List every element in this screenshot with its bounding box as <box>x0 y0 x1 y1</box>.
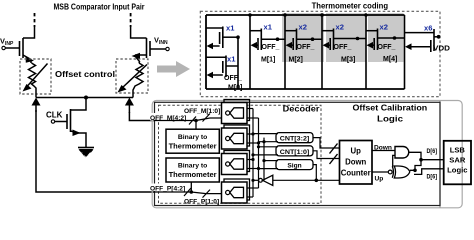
transistor T1b (x1 lower of cell 1) <box>206 55 242 92</box>
svg-text:x2: x2 <box>299 23 307 32</box>
node <box>251 132 254 135</box>
svg-text:Logic: Logic <box>447 166 467 175</box>
transistor T4 (x2, M[3]) <box>322 23 366 64</box>
svg-text:Binary to: Binary to <box>178 163 207 170</box>
wire: left drain dashed up <box>34 13 36 27</box>
wire rail cell5 <box>365 15 367 89</box>
arrow up under right resistor <box>128 101 130 113</box>
wire cell1 output column <box>237 37 239 89</box>
gate G1 (AND, down path) <box>395 147 409 159</box>
wire: M2 source to resistor <box>135 55 147 63</box>
node VINN terminal circle <box>166 47 169 50</box>
big gray arrow <box>157 61 190 77</box>
gray cell M4 <box>368 13 404 62</box>
wire Up output <box>372 171 388 173</box>
inverter U5 on sign line <box>263 175 273 185</box>
svg-text:M[0]: M[0] <box>228 85 242 92</box>
svg-text:Binary to: Binary to <box>178 134 207 141</box>
svg-text:D[6]: D[6] <box>427 173 438 180</box>
svg-text:M[2]: M[2] <box>289 57 303 64</box>
arrow through R1 <box>27 64 48 87</box>
svg-text:OFF_P[1:0]: OFF_P[1:0] <box>184 199 219 206</box>
svg-text:Thermometer coding: Thermometer coding <box>312 2 389 11</box>
svg-text:Down: Down <box>345 158 366 167</box>
gate array U3 <box>222 151 250 175</box>
svg-text:D[6]: D[6] <box>427 148 438 155</box>
binary to thermometer box 2 <box>166 158 219 182</box>
svg-text:CLK: CLK <box>46 111 63 120</box>
wire CNT[3:2] to counter <box>313 138 340 148</box>
wire CNT[1:0] to counter <box>313 151 340 159</box>
wire top gate lower input cross <box>393 155 395 167</box>
wire capsule feed Sign bottom <box>259 168 279 170</box>
decoder dashed box <box>159 105 322 203</box>
wire OFF_P[4:2] into decoder <box>154 191 191 193</box>
wire OFF_M[4:2] into decoder <box>154 120 196 122</box>
svg-text:Up: Up <box>350 147 361 156</box>
node CNT[3:2] capsule <box>276 133 313 143</box>
wire top rail <box>206 14 405 16</box>
svg-text:x2: x2 <box>380 23 388 32</box>
bus slash OFF_P[4:2] <box>184 188 191 196</box>
wire capsule feed CNT[3:2] top <box>253 133 278 135</box>
bus slash OFF_P[1:0] <box>203 190 211 198</box>
wire rail cell3 <box>284 15 286 89</box>
wire stubs U4 inputs <box>247 187 259 189</box>
bus slash CNT[1:0] <box>330 154 338 164</box>
bus wiring and capsules <box>247 109 340 198</box>
wire inverter output <box>253 179 259 181</box>
wire: M1 source to resistor <box>23 55 31 63</box>
bus slash OFF_M[4:2] <box>189 117 196 125</box>
transistor T5 (x2, M[4]) <box>366 23 405 64</box>
transistor M2 (VINN input device) <box>146 38 148 58</box>
gate array U1 (OFF_M[1:0] drivers) <box>222 100 250 124</box>
wire rail right end <box>404 15 406 89</box>
arrow up under left resistor <box>35 101 37 112</box>
svg-text:VDD: VDD <box>433 44 450 53</box>
svg-text:OFF_: OFF_ <box>297 44 315 51</box>
wire top gate output to D[6] <box>409 152 440 159</box>
node <box>251 158 254 161</box>
label OFF_P[4:2] <box>150 184 187 191</box>
svg-text:Thermometer: Thermometer <box>169 170 217 179</box>
svg-text:Sign: Sign <box>287 163 301 170</box>
svg-text:OFF_M[1:0]: OFF_M[1:0] <box>184 108 220 115</box>
svg-text:Up: Up <box>375 175 384 182</box>
svg-text:M[4]: M[4] <box>383 56 397 63</box>
wire OFF_P[1:0] to gate box 4 <box>191 192 221 194</box>
wire bottom rail <box>206 88 405 90</box>
gate array U4 (OFF_P[1:0] drivers) <box>222 179 250 203</box>
transistor T6 (x6, VDD) <box>405 24 451 53</box>
svg-text:Logic: Logic <box>377 114 403 124</box>
bus slash CNT[3:2] <box>330 144 338 154</box>
svg-text:x2: x2 <box>336 23 344 32</box>
svg-text:SAR: SAR <box>449 156 466 165</box>
wire bus V2 <box>258 118 260 188</box>
wire bottom gate output to D[6] <box>410 169 440 175</box>
resistor R1 (variable, left) <box>29 63 37 98</box>
svg-text:x1: x1 <box>226 24 235 33</box>
svg-text:OFF_: OFF_ <box>262 44 280 51</box>
bus slash OFF_M[1:0] <box>203 114 211 122</box>
resistor R2 (variable, right) <box>133 63 143 98</box>
svg-text:Offset control: Offset control <box>55 70 115 79</box>
gate G2 (XNOR, up path) <box>388 170 392 174</box>
svg-text:x1: x1 <box>264 23 273 32</box>
wire Sign to counter <box>313 165 340 181</box>
wire OFF_P feedback to left resistor <box>36 110 154 192</box>
transistor T2 (x1, M[1]) <box>250 23 285 64</box>
svg-text:CNT[1:0]: CNT[1:0] <box>280 149 310 156</box>
wire cross coupling down <box>415 160 421 171</box>
thermometer dashed box <box>200 11 440 96</box>
wire capsule feed CNT[1:0] bottom <box>253 154 278 156</box>
wire OFF_M[1:0] from gate box 1 <box>196 118 222 121</box>
wire Down output <box>372 150 395 152</box>
node rail dots <box>248 13 252 17</box>
ground <box>78 147 94 149</box>
wire rail cell2 <box>249 15 251 89</box>
thermometer transistors get added here <box>206 23 450 92</box>
up down counter box <box>340 141 373 185</box>
node VINP terminal circle <box>2 46 5 49</box>
wire Sign to inverter <box>273 179 317 181</box>
wire left rail <box>205 15 207 89</box>
wire stubs U3 inputs <box>247 159 253 161</box>
inner gray vertical partition <box>439 101 441 208</box>
gate boxes column <box>222 100 250 204</box>
gate array U2 <box>222 125 250 149</box>
wire: common tail node <box>36 97 133 99</box>
node Sign capsule <box>276 160 313 170</box>
svg-text:M[3]: M[3] <box>341 57 355 64</box>
node CNT[1:0] capsule <box>276 146 313 156</box>
svg-text:OFF_P[4:2]: OFF_P[4:2] <box>150 185 185 192</box>
svg-text:MSB Comparator Input Pair: MSB Comparator Input Pair <box>54 3 146 12</box>
wire: right drain solid <box>131 27 147 38</box>
svg-text:x1: x1 <box>227 55 236 64</box>
wire capsule feed Sign top <box>264 160 278 162</box>
node tail junction <box>84 96 88 100</box>
binary to thermometer box 1 <box>166 129 219 153</box>
wire: left drain solid <box>23 27 35 38</box>
wire stubs U1 inputs <box>247 108 253 110</box>
wire bus V1 <box>252 109 254 198</box>
transistor T1a (x1 upper of cell 1) <box>206 24 240 50</box>
svg-text:CNT[3:2]: CNT[3:2] <box>280 136 310 143</box>
label OFF_M[4:2] <box>150 113 187 120</box>
svg-text:Decoder: Decoder <box>283 104 320 114</box>
offset control dashed box right <box>116 59 148 93</box>
svg-text:OFF_: OFF_ <box>224 75 242 82</box>
transistor M1 (VINP input device) <box>22 38 24 58</box>
transistor T3 (x2, M[2]) <box>285 23 322 64</box>
wire capsule feed CNT[3:2] bottom <box>259 141 279 143</box>
LSB SAR Logic box <box>444 141 471 185</box>
gray cell M2 <box>282 13 324 62</box>
svg-text:Down: Down <box>374 144 392 151</box>
arrow through R2 <box>122 65 147 89</box>
wire OFF_M feedback to right resistor <box>129 112 154 121</box>
wire capsule feed CNT[1:0] top <box>259 146 279 148</box>
offset control dashed box left <box>20 59 51 94</box>
offset calibration box (black) <box>155 102 441 205</box>
wire rail cell4 <box>321 15 323 89</box>
svg-text:M[1]: M[1] <box>261 57 275 64</box>
wire: right drain dashed up <box>130 13 132 27</box>
wire stubs into LSB SAR <box>440 159 444 161</box>
svg-text:Offset Calibration: Offset Calibration <box>353 103 428 113</box>
outer gray rounded frame <box>152 101 462 208</box>
svg-text:x6: x6 <box>424 24 432 33</box>
svg-text:Counter: Counter <box>341 169 371 178</box>
svg-text:LSB: LSB <box>450 146 466 155</box>
svg-text:OFF_: OFF_ <box>334 44 352 51</box>
svg-text:Thermometer: Thermometer <box>169 141 217 150</box>
counter, gates, LSB SAR <box>340 141 472 185</box>
wire bus V3 <box>263 138 265 181</box>
gray cell M3 <box>326 13 366 62</box>
svg-text:OFF_: OFF_ <box>378 44 396 51</box>
wire stubs U2 inputs <box>247 133 253 135</box>
